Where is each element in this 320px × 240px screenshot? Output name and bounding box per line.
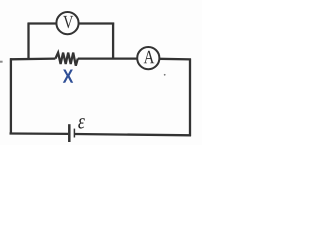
wire: middle wire right of ammeter [159, 58, 191, 61]
value label X [63, 70, 73, 83]
wire: right edge of outer loop [189, 59, 191, 137]
wire: bottom wire left of battery [10, 132, 69, 135]
wire: voltmeter branch left leg [27, 23, 29, 59]
wire: voltmeter branch right leg [112, 23, 114, 59]
voltmeter label V [63, 16, 73, 28]
wire: bottom wire right of battery [75, 134, 191, 135]
wire: middle wire left segment (top side of outer loop) [10, 57, 55, 60]
emf label epsilon [78, 118, 85, 128]
ammeter label A [144, 51, 155, 64]
resistor X [55, 53, 77, 66]
ammeter A1 circle [137, 47, 159, 69]
wire: voltmeter branch top left segment [28, 22, 57, 24]
stray scan mark at left edge [0, 61, 3, 63]
stray scan dot right area [164, 74, 166, 76]
wire: left edge of outer loop [10, 58, 12, 134]
wire: middle wire between resistor and ammeter [78, 57, 138, 59]
wire: voltmeter branch top right segment [79, 22, 115, 24]
voltmeter V1 circle [56, 12, 78, 34]
battery cell: long plate [68, 124, 71, 142]
battery cell: short plate [73, 129, 75, 138]
